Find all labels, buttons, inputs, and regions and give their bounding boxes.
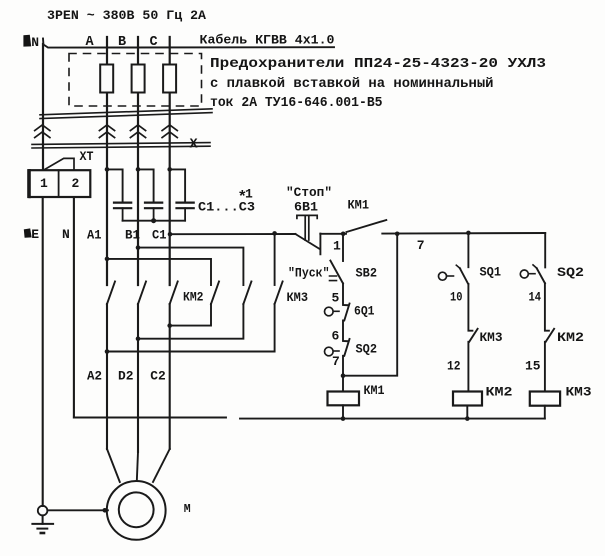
control rail right segment: [382, 232, 545, 235]
svg-text:КМ2: КМ2: [183, 290, 204, 305]
limit switch SQ1: [439, 265, 469, 284]
label KM3 coil: [566, 385, 592, 400]
capacitor C2: [145, 203, 162, 221]
bottom rail N left segment: [74, 417, 226, 419]
bottom rail N right segment: [240, 418, 545, 420]
svg-text:Кабель КГВВ 4х1.0: Кабель КГВВ 4х1.0: [200, 33, 335, 48]
wire KM3 aux to KM2 coil: [467, 342, 469, 392]
node B tap: [136, 245, 141, 250]
wire self hold branch: [343, 234, 397, 376]
svg-text:КМ2: КМ2: [486, 385, 513, 400]
wire A2 down: [106, 304, 108, 449]
motor lead C2 diagonal: [153, 449, 170, 482]
svg-text:M: M: [184, 503, 191, 516]
cable chevrons on A: [99, 125, 114, 138]
label SQ2 chain: [356, 342, 378, 357]
wire C2 down: [169, 304, 171, 449]
label KM3 aux: [480, 330, 503, 345]
contactor KM2 main contact 2: [138, 282, 146, 305]
svg-text:6Q1: 6Q1: [354, 304, 375, 319]
node contact6 feed: [272, 231, 277, 236]
svg-text:SB2: SB2: [356, 266, 378, 281]
XT terminal numbers: [40, 176, 80, 191]
wire tap B to KM3 contact 5: [138, 248, 243, 285]
node C rail tap: [168, 232, 173, 237]
wire SQ1 branch top: [467, 233, 469, 267]
fuse FU1: [100, 65, 113, 93]
wire phase B vertical: [137, 37, 139, 285]
connector X label: [190, 138, 199, 153]
svg-text:Предохранители ПП24-25-4323-20: Предохранители ПП24-25-4323-20 УХЛ3: [210, 57, 546, 72]
labels Pusk SB2: [288, 266, 377, 281]
svg-text:3PEN ~ 380В 50 Гц 2А: 3PEN ~ 380В 50 Гц 2А: [47, 8, 206, 23]
node motor ground: [103, 508, 108, 513]
fuse FU3: [163, 65, 176, 93]
node KM1 rail: [341, 416, 346, 421]
pushbutton SB1 NC blade: [295, 234, 319, 249]
svg-text:12: 12: [447, 359, 461, 374]
wire B2 down: [137, 304, 139, 452]
svg-text:6В1: 6В1: [294, 200, 318, 215]
label node 7 top: [417, 238, 425, 253]
wire KM3 contact4 bottom to C2: [170, 304, 211, 326]
node cap bus: [151, 218, 156, 223]
svg-text:1: 1: [40, 176, 48, 191]
wire phase A vertical: [106, 37, 108, 285]
svg-text:E: E: [31, 227, 39, 242]
node 7 rail: [395, 232, 400, 237]
contactor KM3 main contact 4: [211, 282, 219, 305]
label node 12: [447, 359, 461, 374]
ground symbol: [32, 515, 53, 533]
labels A2 D2 C2: [87, 369, 166, 384]
node A2 join: [105, 349, 110, 354]
svg-text:1: 1: [333, 239, 341, 254]
node cap tap C: [167, 167, 172, 172]
contactor KM3 main contact 5: [243, 282, 251, 305]
wire KM2 coil to rail: [466, 406, 468, 419]
capacitor C1: [114, 203, 131, 221]
svg-text:XT: XT: [80, 150, 94, 164]
svg-text:с плавкой вставкой на номиннал: с плавкой вставкой на номиннальный: [210, 77, 494, 92]
wire chain from node 1: [342, 234, 344, 261]
wire KM3 contact6 bottom to A2: [107, 304, 275, 352]
phase labels A B C: [86, 35, 158, 50]
node E wire PE vertical: [42, 197, 44, 506]
wire SQ2 to KM2 aux: [545, 283, 549, 330]
wire 6Q1 to SQ2: [343, 321, 348, 342]
node SQ1 branch: [466, 231, 471, 236]
limit switch 6Q1: [325, 304, 350, 321]
coil KM3: [530, 392, 560, 406]
label node 5: [332, 291, 340, 306]
cable chevrons on N: [35, 125, 50, 138]
cable chevrons on C: [162, 125, 177, 138]
svg-text:КМ2: КМ2: [557, 330, 584, 345]
capacitor C3: [177, 203, 194, 221]
label node 1: [333, 239, 341, 254]
svg-text:7: 7: [417, 238, 425, 253]
contactor KM2 main contact 1: [107, 282, 115, 305]
pushbutton SB1 Stop labels: [286, 185, 332, 215]
svg-text:B1: B1: [125, 228, 140, 243]
label node 10: [450, 290, 463, 305]
label KM3 power: [287, 290, 309, 305]
label node 14: [529, 290, 542, 305]
contact KM1 self-hold blade: [347, 220, 387, 232]
wire KM1 coil to rail: [342, 405, 344, 418]
svg-text:7: 7: [332, 354, 340, 369]
wire drop to KM3 contact 6: [274, 233, 276, 285]
XT leader and jumper to terminal 2: [44, 158, 74, 170]
label 6Q1: [354, 304, 375, 319]
svg-text:10: 10: [450, 290, 463, 305]
svg-text:КМ3: КМ3: [566, 385, 592, 400]
ground terminal circle: [38, 506, 48, 516]
wire tap A to KM3 contact 4: [107, 259, 211, 285]
capacitor C3 tap wire: [170, 169, 185, 202]
svg-text:D2: D2: [118, 369, 134, 384]
wire KM3 contact5 bottom to B2: [138, 304, 243, 339]
wire KM2 aux to KM3 coil: [544, 342, 546, 392]
label KM1 contact: [348, 198, 370, 213]
cable chevrons on B: [130, 125, 145, 138]
svg-text:"Стоп": "Стоп": [286, 185, 332, 200]
label node 15: [525, 359, 541, 374]
control rail node1 segment: [320, 233, 346, 235]
svg-text:А2: А2: [87, 369, 102, 384]
pushbutton SB2 blade: [330, 261, 343, 284]
coil KM1: [328, 392, 360, 406]
wire SQ2 branch top: [544, 233, 546, 267]
contact KM3 aux: [469, 329, 477, 342]
fuse note text: [210, 57, 546, 111]
limit switch SQ2 chain: [325, 339, 350, 356]
contact KM2 aux: [546, 329, 554, 342]
XT label: [80, 150, 94, 164]
node E marker and label: [24, 227, 40, 242]
svg-text:X: X: [190, 138, 199, 153]
svg-text:КМ1: КМ1: [364, 383, 385, 398]
svg-text:КМ3: КМ3: [480, 330, 503, 345]
pushbutton SB1 actuator: [297, 215, 317, 240]
label KM1 coil: [364, 383, 385, 398]
node labels N A1 B1 C1: [62, 227, 167, 243]
contactor KM3 main contact 6: [275, 282, 283, 305]
wire SQ2 to KM1 coil: [342, 356, 344, 392]
wire N below XT: [73, 197, 75, 418]
wire SB2 to 6Q1: [343, 283, 348, 305]
svg-text:ток 2А ТУ16-646.001-В5: ток 2А ТУ16-646.001-В5: [210, 96, 383, 111]
svg-text:КМ3: КМ3: [287, 290, 309, 305]
svg-text:2: 2: [72, 176, 80, 191]
node N marker: [23, 35, 39, 50]
node cap tap A: [105, 167, 110, 172]
pushbutton SB1 fixed contact: [319, 234, 321, 255]
capacitor C1 tap wire: [107, 169, 123, 202]
svg-text:C2: C2: [150, 369, 166, 384]
wire tap C control rail: [170, 233, 295, 235]
motor lead B2 diagonal: [137, 452, 138, 482]
node A tap: [105, 257, 110, 262]
motor M: [107, 481, 166, 540]
cable sheath double line upper: [40, 109, 212, 119]
wire phase C vertical: [169, 37, 171, 285]
svg-text:"Пуск": "Пуск": [288, 266, 330, 281]
label C1...C3: [198, 200, 255, 215]
label SQ2 right: [557, 265, 584, 280]
fuse box dashed outline: [69, 54, 202, 107]
limit switch SQ2 right: [520, 265, 545, 283]
label KM2 coil: [486, 385, 513, 400]
node C2 join: [167, 323, 172, 328]
svg-text:C1...C3: C1...C3: [198, 200, 255, 215]
label node 7 chain: [332, 354, 340, 369]
node KM2 rail: [465, 416, 470, 421]
svg-text:A1: A1: [87, 228, 102, 243]
fuse FU2: [132, 65, 145, 93]
terminal block XT: [28, 170, 90, 197]
node 7 hold: [341, 373, 346, 378]
svg-text:КМ1: КМ1: [348, 198, 370, 213]
label *1: [238, 187, 254, 207]
coil KM2: [453, 392, 482, 406]
cable sheath double line lower: [32, 143, 210, 148]
svg-text:SQ1: SQ1: [480, 265, 502, 280]
node cap tap B: [136, 167, 141, 172]
svg-text:6: 6: [332, 329, 340, 344]
label M: [184, 503, 191, 516]
label KM2 aux: [557, 330, 584, 345]
title 3PEN 380V: [47, 8, 206, 23]
svg-text:SQ2: SQ2: [557, 265, 584, 280]
node 1: [341, 232, 346, 237]
wire N horizontal: [43, 39, 334, 48]
contactor KM2 main contact 3: [170, 282, 178, 305]
wire N vertical drop to XT: [42, 44, 44, 170]
svg-text:5: 5: [332, 291, 340, 306]
cable label: [200, 33, 335, 48]
svg-text:C1: C1: [152, 228, 167, 243]
wire SQ1 to KM3 aux: [468, 284, 472, 331]
pushbutton SB2 actuator: [330, 276, 337, 281]
label node 6: [332, 329, 340, 344]
motor lead A2 diagonal: [107, 449, 120, 482]
wire ground to motor: [47, 509, 108, 511]
capacitor bottom bus: [123, 220, 186, 222]
svg-text:N: N: [62, 227, 70, 242]
label SQ1: [480, 265, 502, 280]
node B2 join: [136, 336, 141, 341]
svg-text:SQ2: SQ2: [356, 342, 378, 357]
capacitor C2 tap wire: [138, 169, 154, 202]
wire KM3 coil to rail: [544, 406, 546, 419]
svg-text:15: 15: [525, 359, 541, 374]
svg-text:N: N: [31, 35, 39, 50]
label KM2 power: [183, 290, 204, 305]
svg-text:14: 14: [529, 290, 542, 305]
